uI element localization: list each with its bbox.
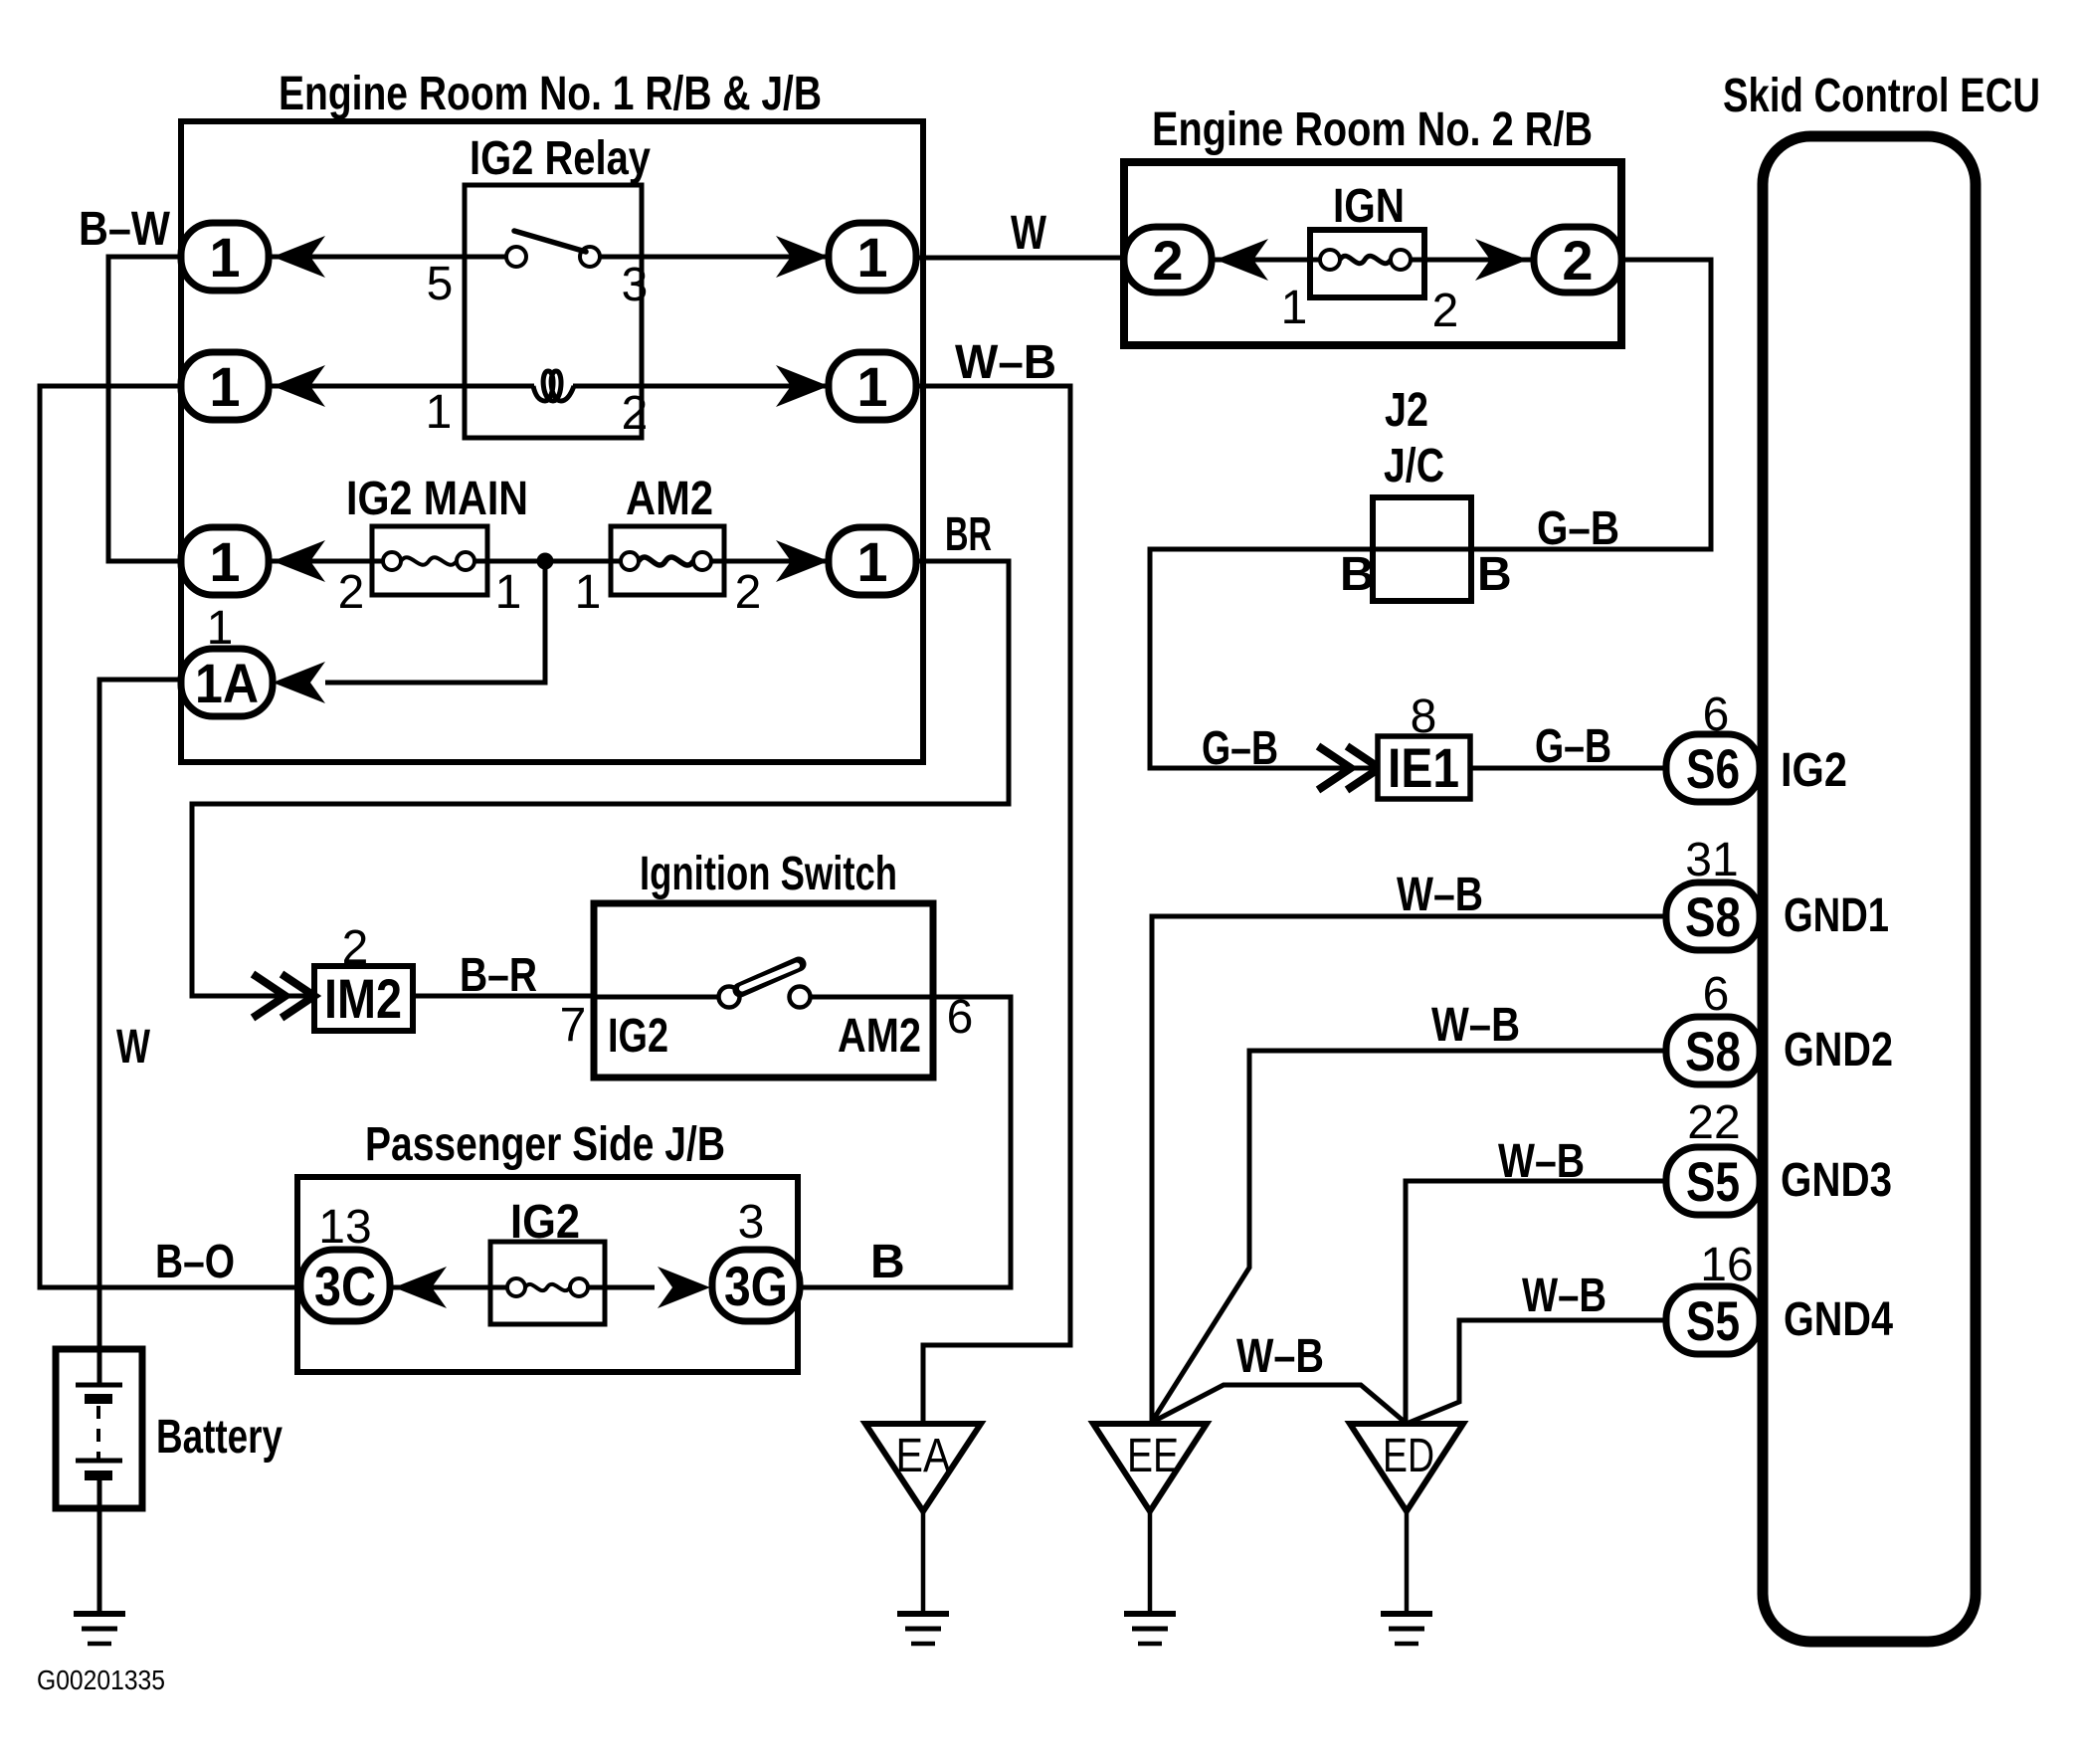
svg-text:W: W — [116, 1021, 151, 1074]
svg-text:GND3: GND3 — [1781, 1154, 1892, 1207]
svg-text:1: 1 — [209, 530, 240, 593]
wire W: row1 right oval to Engine Room No.2 R/B — [916, 256, 1124, 261]
svg-text:1: 1 — [1281, 282, 1308, 334]
arrow into ER2 right connector — [1475, 239, 1528, 281]
connector 1 (row1 left) — [181, 223, 269, 291]
wire W-B GND1: S8 to EE ground triangle — [1152, 916, 1667, 1424]
svg-text:G–B: G–B — [1537, 502, 1619, 555]
svg-text:7: 7 — [560, 999, 587, 1052]
wire AM2 fuse to right arrow row3 — [711, 559, 829, 564]
svg-text:1: 1 — [575, 566, 602, 619]
svg-text:1: 1 — [209, 355, 240, 418]
svg-text:IGN: IGN — [1333, 180, 1405, 233]
svg-text:6: 6 — [1703, 968, 1730, 1021]
ECU Skid Control ECU — [1723, 70, 2040, 1642]
wire junction to 1A connector — [325, 561, 545, 683]
wire BR: row3 right oval down-left-down to IM2 — [192, 561, 1009, 996]
svg-text:1: 1 — [856, 226, 887, 289]
fuse IG2 (Passenger Side J/B) — [490, 1196, 605, 1324]
wire ignition switch left contact — [594, 995, 718, 1000]
svg-text:13: 13 — [318, 1201, 371, 1254]
svg-text:W–B: W–B — [1522, 1270, 1606, 1322]
svg-text:BR: BR — [945, 508, 992, 561]
wire IG2 MAIN fuse to AM2 fuse through junction — [474, 559, 621, 564]
wire ER2 left oval to IGN fuse — [1212, 258, 1320, 263]
svg-text:S6: S6 — [1686, 737, 1740, 800]
svg-text:2: 2 — [1562, 229, 1593, 292]
svg-text:G–B: G–B — [1535, 720, 1611, 773]
wire W-B link between EE and ED triangles — [1151, 1385, 1406, 1423]
svg-text:2: 2 — [342, 921, 369, 974]
svg-text:B: B — [870, 1236, 905, 1288]
switch Ignition Switch — [594, 848, 933, 1078]
wire battery negative to ground — [97, 1475, 102, 1614]
svg-text:J/C: J/C — [1384, 440, 1444, 492]
svg-text:W–B: W–B — [1498, 1135, 1585, 1188]
connector 3C — [300, 1250, 390, 1321]
connector 1 (row2 left) — [181, 352, 269, 420]
svg-text:Battery: Battery — [156, 1411, 283, 1464]
connector 1 (row1 right) — [829, 223, 916, 291]
svg-text:1: 1 — [207, 602, 234, 655]
arrow into row1 right connector — [776, 236, 829, 278]
arrow into 3C connector — [394, 1267, 447, 1308]
svg-text:W–B: W–B — [1431, 999, 1520, 1052]
fuse AM2 — [611, 473, 724, 595]
connector 2 (ER2 left) — [1124, 227, 1212, 293]
svg-text:3G: 3G — [724, 1255, 788, 1317]
connector S5 (pin 16, GND4) — [1666, 1286, 1760, 1354]
svg-text:EA: EA — [896, 1430, 951, 1482]
svg-text:IG2: IG2 — [510, 1196, 580, 1249]
wire IGN fuse to ER2 right oval — [1411, 258, 1534, 263]
svg-text:31: 31 — [1685, 834, 1738, 886]
svg-text:W–B: W–B — [955, 336, 1056, 389]
ground triangle EE — [1093, 1424, 1207, 1614]
svg-text:W: W — [1011, 207, 1047, 260]
wire W-B GND3: S5 to ED ground triangle — [1406, 1181, 1667, 1423]
wire G-B: IE1 to S6 connector — [1470, 766, 1665, 771]
svg-text:2: 2 — [338, 566, 365, 619]
svg-text:IG2: IG2 — [1781, 744, 1847, 797]
svg-text:Skid Control ECU: Skid Control ECU — [1723, 70, 2040, 122]
svg-text:6: 6 — [1703, 688, 1730, 741]
arrow into row3 right connector — [776, 540, 829, 582]
ground (battery) — [74, 1614, 125, 1644]
svg-text:G–B: G–B — [1202, 722, 1278, 775]
ground (EA) — [897, 1614, 949, 1644]
svg-text:IG2 MAIN: IG2 MAIN — [346, 473, 528, 525]
fuse IGN — [1310, 180, 1424, 297]
svg-text:3: 3 — [622, 259, 649, 311]
junction block Passenger Side J/B — [297, 1118, 798, 1372]
connector 1 (row3 left) — [181, 527, 269, 595]
svg-text:GND1: GND1 — [1784, 889, 1889, 942]
connector IE1 — [1378, 736, 1470, 799]
ignition switch contacts and lever — [719, 964, 811, 1008]
svg-text:J2: J2 — [1385, 384, 1428, 437]
connector 3G — [712, 1250, 800, 1321]
svg-text:16: 16 — [1700, 1239, 1753, 1291]
fuse IG2 MAIN — [346, 473, 528, 595]
ground triangle EA — [865, 1424, 981, 1614]
arrow into row1 left connector — [273, 236, 325, 278]
svg-text:S8: S8 — [1685, 885, 1741, 948]
connector IM2 — [314, 966, 413, 1031]
svg-text:1: 1 — [856, 530, 887, 593]
svg-text:W–B: W–B — [1236, 1330, 1324, 1383]
svg-text:1: 1 — [495, 566, 522, 619]
wire relay coil to right arrow row2 — [573, 384, 829, 389]
relay contact (pins 5-3) — [506, 231, 600, 267]
svg-text:IG2: IG2 — [608, 1010, 668, 1063]
double chevron arrow into IM2 — [253, 974, 314, 1018]
arrow into row2 left connector — [273, 365, 325, 407]
svg-text:S5: S5 — [1686, 1150, 1740, 1213]
ground (EE) — [1124, 1614, 1176, 1644]
svg-text:1: 1 — [426, 386, 453, 439]
svg-text:3: 3 — [738, 1196, 765, 1249]
wire ignition switch right contact to edge — [810, 995, 933, 1000]
svg-text:2: 2 — [1152, 229, 1183, 292]
wire B: 3G connector up to ignition switch AM2 — [800, 997, 1011, 1287]
svg-text:S5: S5 — [1686, 1289, 1740, 1352]
svg-text:1: 1 — [209, 226, 240, 289]
arrow into 3G connector — [658, 1267, 710, 1308]
wire B-R: IM2 to Ignition Switch — [413, 994, 594, 999]
ground triangle ED — [1350, 1424, 1463, 1614]
svg-text:B–O: B–O — [155, 1236, 235, 1288]
svg-text:3C: 3C — [314, 1255, 376, 1317]
svg-text:2: 2 — [1432, 285, 1459, 337]
svg-text:8: 8 — [1411, 690, 1437, 743]
svg-text:IG2 Relay: IG2 Relay — [470, 132, 651, 185]
connector 1 (row3 right) — [829, 527, 916, 595]
connector 1 (row2 right) — [829, 352, 916, 420]
svg-text:22: 22 — [1687, 1096, 1740, 1149]
double chevron arrow into IE1 — [1318, 746, 1380, 790]
svg-text:6: 6 — [947, 991, 974, 1044]
svg-text:Ignition Switch: Ignition Switch — [640, 848, 897, 900]
svg-text:G00201335: G00201335 — [37, 1665, 165, 1695]
svg-text:AM2: AM2 — [838, 1010, 921, 1063]
wire W-B GND2: S8 to EE ground triangle — [1152, 1051, 1667, 1422]
svg-text:B–R: B–R — [460, 949, 537, 1002]
connector S8 (pin 31, GND1) — [1666, 882, 1760, 950]
node: junction dot on row3 between fuses — [537, 553, 554, 570]
wire relay contact to right arrow row1 — [600, 255, 829, 260]
svg-text:2: 2 — [622, 387, 649, 440]
junction connector J2 J/C — [1373, 384, 1471, 601]
wire W-B: row2 right oval down to EA ground triangle — [916, 386, 1070, 1424]
svg-text:GND4: GND4 — [1784, 1293, 1893, 1346]
connector S6 (pin 6, IG2) — [1666, 734, 1760, 802]
arrow into row3 left connector — [273, 540, 325, 582]
svg-text:EE: EE — [1127, 1430, 1179, 1482]
arrow into row2 right connector — [776, 365, 829, 407]
wire 3C connector to IG2 fuse (Passenger Side J/B) — [390, 1285, 507, 1290]
connector 2 (ER2 right) — [1534, 227, 1621, 293]
wire W: 1A connector down to battery positive — [99, 680, 181, 1385]
wire W-B GND4: S5 to ED ground triangle — [1409, 1320, 1667, 1423]
arrow into ER2 left connector — [1216, 239, 1268, 281]
svg-text:B: B — [1477, 548, 1512, 601]
svg-text:Passenger Side J/B: Passenger Side J/B — [365, 1118, 725, 1171]
svg-text:ED: ED — [1383, 1430, 1434, 1482]
svg-text:Engine Room No. 2 R/B: Engine Room No. 2 R/B — [1152, 103, 1593, 156]
svg-text:5: 5 — [427, 258, 454, 310]
svg-text:S8: S8 — [1685, 1020, 1741, 1082]
svg-text:B–W: B–W — [79, 203, 171, 256]
svg-text:B: B — [1340, 548, 1375, 601]
relay IG2 Relay — [465, 132, 651, 438]
connector S5 (pin 22, GND3) — [1666, 1147, 1760, 1215]
wire G-B: J/C left side down to IE1 — [1150, 549, 1378, 768]
relay coil (pins 1-2) — [533, 371, 574, 401]
svg-text:1: 1 — [856, 355, 887, 418]
svg-text:W–B: W–B — [1397, 869, 1483, 921]
junction block Engine Room No. 1 R/B & J/B — [181, 68, 923, 762]
svg-text:1A: 1A — [195, 652, 259, 714]
wire row1 oval to relay contact — [269, 255, 506, 260]
svg-text:Engine Room No. 1 R/B & J/B: Engine Room No. 1 R/B & J/B — [279, 68, 822, 120]
ground (ED) — [1381, 1614, 1432, 1644]
svg-text:GND2: GND2 — [1784, 1024, 1893, 1077]
svg-text:IE1: IE1 — [1388, 736, 1459, 799]
wire row2 oval to relay coil — [269, 384, 534, 389]
wire B-O: row2-left down to 3C connector — [40, 386, 300, 1287]
wire B-W loop row1-left to row3-left — [108, 257, 181, 561]
svg-text:2: 2 — [735, 566, 762, 619]
connector S8 (pin 6, GND2) — [1666, 1017, 1760, 1084]
wire IG2 fuse to 3G connector — [588, 1285, 655, 1290]
connector 1A — [181, 649, 273, 716]
wire G-B: ER2 right oval down to J2 J/C — [1373, 260, 1711, 549]
wire row3 oval to IG2 MAIN fuse — [269, 559, 383, 564]
svg-text:AM2: AM2 — [626, 473, 713, 525]
battery — [56, 1349, 283, 1508]
arrow into 1A connector — [273, 662, 325, 703]
junction block Engine Room No. 2 R/B — [1124, 103, 1621, 345]
svg-text:IM2: IM2 — [324, 967, 402, 1030]
